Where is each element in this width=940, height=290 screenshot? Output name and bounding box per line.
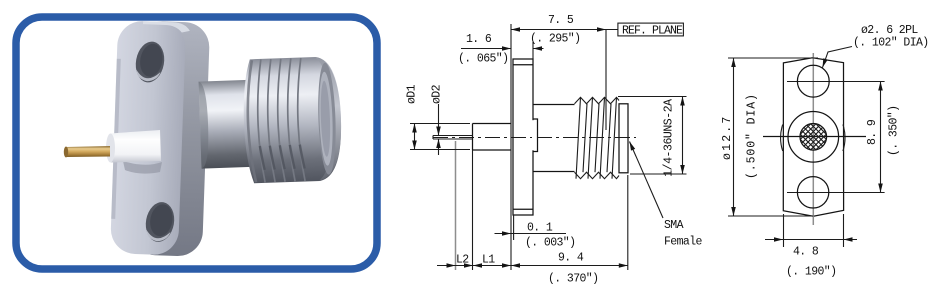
- svg-text:7. 5: 7. 5: [548, 14, 574, 27]
- extension line above flange right face: [532, 42, 534, 59]
- 3D photo group: [64, 20, 343, 257]
- svg-text:ø2. 6 2PL: ø2. 6 2PL: [861, 24, 918, 37]
- svg-text:(. 350″): (. 350″): [888, 106, 901, 156]
- dimension 4.8 extension lines: [784, 214, 844, 247]
- svg-text:L2: L2: [456, 254, 469, 267]
- center contact hatched circle: [800, 124, 827, 151]
- dielectric cylinder: [106, 130, 161, 163]
- svg-text:8. 9: 8. 9: [866, 119, 879, 145]
- svg-text:(. 102″ DIA): (. 102″ DIA): [853, 37, 929, 50]
- svg-text:øD2: øD2: [431, 84, 444, 104]
- bottom mounting hole: [797, 177, 828, 208]
- thread crest zigzag bottom: [575, 172, 620, 179]
- svg-text:(. 190″): (. 190″): [786, 266, 836, 279]
- barrel bulge arcs at flange sides: [781, 125, 846, 152]
- gold pin: [64, 146, 110, 158]
- thread crest zigzag top: [575, 97, 620, 104]
- barrel: [199, 80, 262, 169]
- svg-text:Female: Female: [664, 236, 703, 249]
- svg-text:1/4-36UNS-2A: 1/4-36UNS-2A: [663, 99, 676, 177]
- barrel left shadow: [199, 81, 210, 168]
- hole spec label 2.6: [820, 24, 928, 68]
- dimension line L2 L1 9.4: [437, 252, 628, 286]
- dimension 12.7 extension lines: [728, 58, 818, 216]
- center outer circle: [788, 112, 839, 163]
- dielectric front face line + extension: [510, 24, 512, 270]
- top mounting hole: [797, 65, 829, 97]
- nut end cap: [314, 56, 343, 181]
- center pin: [433, 136, 473, 140]
- side view group: [406, 14, 703, 286]
- flange plate front face: [110, 20, 190, 255]
- top mounting hole 3D: [133, 39, 168, 84]
- extension dielectric rear down: [472, 150, 474, 270]
- thread spec extension lines: [618, 97, 687, 175]
- dimension D1 extension lines: [410, 124, 470, 150]
- extension body end down: [627, 175, 629, 270]
- dimension 7.5: [511, 14, 618, 46]
- nut grooves: [256, 58, 305, 182]
- cylinder assembly: [198, 56, 343, 185]
- SMA Female label: [627, 141, 702, 249]
- vertical centerline (gray): [812, 53, 814, 225]
- svg-text:REF. PLANE: REF. PLANE: [622, 24, 683, 37]
- svg-text:0. 1: 0. 1: [527, 222, 553, 235]
- dimension D2: [431, 84, 444, 155]
- svg-text:SMA: SMA: [664, 219, 684, 232]
- flange face lower extension (0.1 pair): [513, 215, 515, 240]
- dimension 0.1: [495, 222, 576, 250]
- nut body: [242, 56, 343, 183]
- svg-text:(. 295″): (. 295″): [530, 33, 580, 46]
- front view group: [721, 24, 929, 279]
- bottom hole centerline / extension: [787, 192, 885, 194]
- svg-text:(. 370″): (. 370″): [548, 273, 598, 286]
- thread flank lines: [576, 97, 617, 178]
- svg-text:(. 065″): (. 065″): [458, 53, 508, 66]
- flange chamfer lines: [513, 65, 533, 210]
- dielectric shadow on plate: [123, 161, 162, 174]
- svg-text:4. 8: 4. 8: [793, 246, 819, 259]
- rear boss: [532, 120, 534, 150]
- flange plate side face: [130, 21, 210, 257]
- dielectric face: [473, 124, 512, 151]
- svg-text:L1: L1: [482, 254, 495, 267]
- blue frame: [16, 17, 377, 269]
- dimension 8.9: [866, 82, 901, 193]
- body barrel: [533, 105, 575, 172]
- extension L2 (gray): [455, 141, 457, 270]
- dimension 1/4-36UNS-2A: [663, 97, 685, 177]
- reference plane line: [605, 30, 607, 131]
- main horizontal centerline: [763, 136, 866, 138]
- svg-text:9. 4: 9. 4: [558, 252, 584, 265]
- svg-text:øD1: øD1: [406, 84, 419, 104]
- svg-text:1. 6: 1. 6: [466, 33, 492, 46]
- flange front outline: [783, 58, 843, 216]
- groove shadows lower: [260, 144, 305, 170]
- svg-text:ø12.7: ø12.7: [721, 114, 734, 160]
- dimension 4.8: [765, 237, 857, 278]
- svg-text:(. 003″): (. 003″): [525, 237, 575, 250]
- nut left rim: [246, 60, 256, 182]
- REF. PLANE box: [618, 23, 684, 37]
- centerline axis: [433, 137, 636, 139]
- dimension 1.6: [458, 33, 544, 66]
- top hole centerline / extension: [787, 81, 885, 83]
- dimension D1: [406, 84, 419, 149]
- flange side outline: [513, 59, 533, 215]
- dimension 12.7: [721, 58, 759, 216]
- bottom mounting hole 3D: [143, 200, 178, 244]
- body end cap: [619, 104, 628, 173]
- svg-text:(.500″ DIA): (.500″ DIA): [746, 93, 759, 179]
